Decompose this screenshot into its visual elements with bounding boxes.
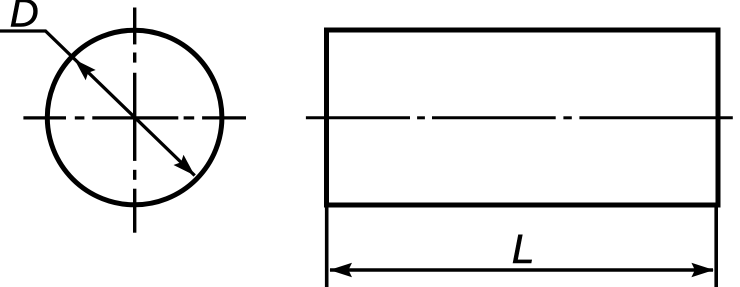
svg-text:L: L bbox=[512, 226, 535, 272]
svg-text:D: D bbox=[10, 0, 39, 36]
